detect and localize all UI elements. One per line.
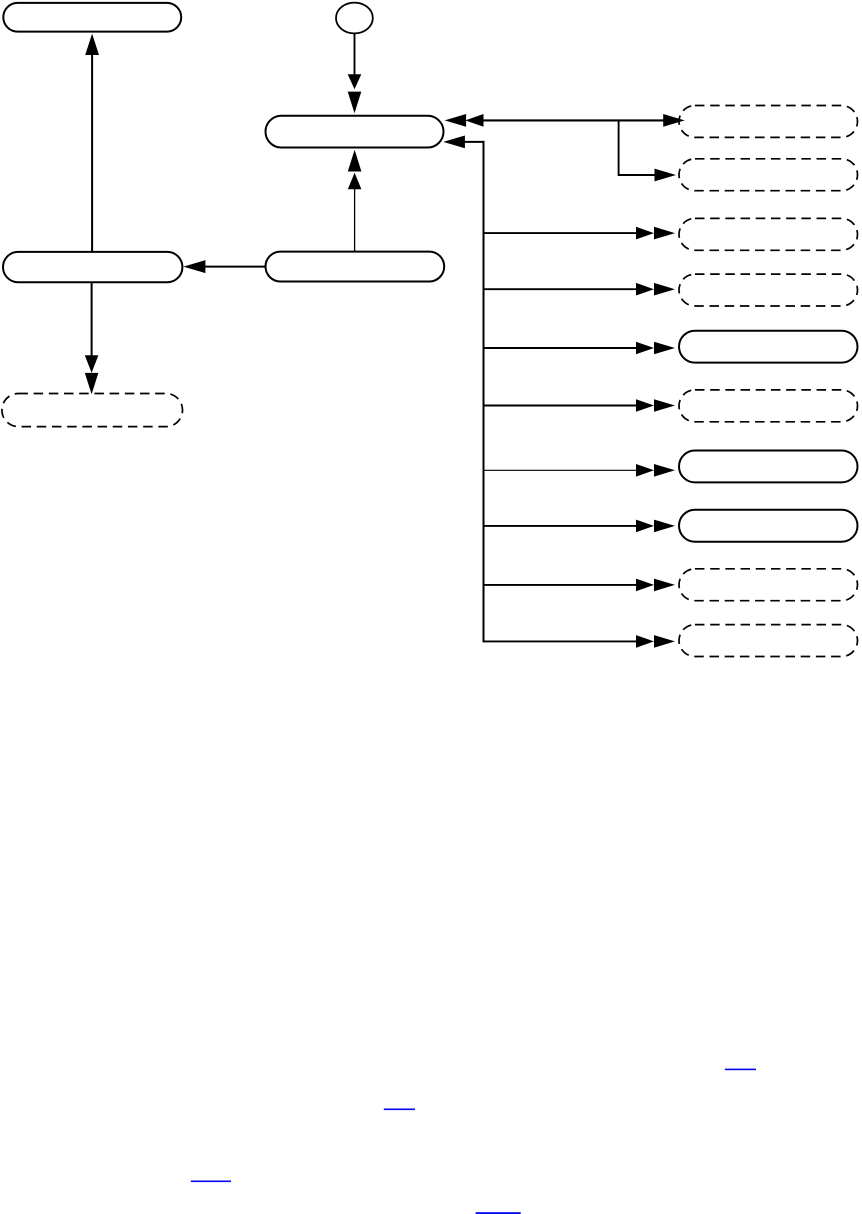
wire L up to A: [91, 54, 93, 251]
wire M up to C: [354, 189, 356, 251]
wire branch to R6: [484, 405, 638, 407]
arrowhead right 1 to R4: [636, 283, 654, 296]
state box R3 dashed: [679, 218, 858, 250]
arrowhead right 2 to R3: [654, 227, 675, 240]
wire trunk vertical: [483, 141, 485, 643]
state box R5 solid: [679, 331, 858, 363]
arrowhead down 1 of start wire: [348, 74, 362, 89]
arrowhead down 1 of L-LD wire: [85, 355, 99, 373]
wire branch to R10: [484, 640, 638, 642]
arrowhead right 1 to R3: [636, 227, 654, 240]
state box R10 dashed: [679, 625, 858, 657]
arrowhead right 1 to R10: [636, 635, 654, 648]
state box L left-mid: [3, 252, 182, 282]
state box R1 dashed: [679, 106, 858, 138]
link underline 4: [476, 1212, 521, 1214]
state box C center: [266, 116, 444, 148]
state box LD left dashed: [2, 394, 183, 427]
wire branch to R8: [484, 525, 638, 527]
arrowhead right 1 to R6: [636, 399, 654, 412]
arrowhead right 2 to R9: [654, 579, 675, 592]
arrowhead down 2 of start wire: [348, 92, 362, 114]
arrowhead right 1 to R5: [636, 342, 654, 355]
wire branch to R4: [484, 288, 638, 290]
state box R8 solid: [679, 510, 858, 542]
arrowhead right 2 to R4: [654, 283, 675, 296]
wire elbow down to R2: [619, 121, 656, 175]
arrowhead right 2 to R6: [654, 399, 675, 412]
arrowhead up of L-A wire: [85, 34, 99, 55]
arrowhead right 1 to R7: [636, 464, 654, 477]
state box R6 dashed: [679, 390, 858, 422]
state box A top-left: [3, 3, 181, 32]
wire M to L horizontal: [205, 266, 266, 268]
arrowhead left 2 at C: [465, 114, 483, 127]
arrowhead left into C of trunk: [443, 136, 465, 149]
wire branch to R5: [484, 347, 638, 349]
wire trunk from C right edge: [464, 141, 484, 143]
arrowhead right 2 to R7: [654, 464, 675, 477]
link underline 2: [384, 1109, 415, 1111]
link underline 3: [191, 1181, 231, 1183]
arrowhead up 1 of M-C wire: [348, 150, 362, 172]
wire C to R1 double-headed: [483, 119, 665, 121]
arrowhead right 1 to R8: [636, 520, 654, 533]
wire start circle to box C: [354, 34, 356, 77]
wire branch to R3: [484, 232, 638, 234]
wire branch to R7 thin: [484, 469, 638, 471]
arrowhead right into R2: [655, 169, 677, 182]
start circle: [336, 3, 373, 34]
wire branch to R9: [484, 584, 638, 586]
state box R7 solid: [679, 451, 858, 483]
arrowhead right 2 to R5: [654, 342, 675, 355]
arrowhead right 2 to R10: [654, 635, 675, 648]
arrowhead right 2 to R8: [654, 520, 675, 533]
wire L down to LD: [91, 283, 93, 356]
state box R4 dashed: [679, 274, 858, 306]
state box R2 dashed: [679, 159, 858, 191]
state box R9 dashed: [679, 569, 858, 601]
arrowhead down 2 of L-LD wire: [85, 373, 99, 394]
link underline 1: [725, 1069, 756, 1071]
arrowhead left of M-L wire: [183, 260, 205, 273]
arrowhead left 1 at C: [445, 114, 467, 127]
arrowhead right 1 to R9: [636, 579, 654, 592]
arrowhead up 2 of M-C wire: [348, 173, 362, 190]
arrowhead right into R1: [663, 114, 685, 127]
state box M center-mid: [266, 252, 445, 282]
